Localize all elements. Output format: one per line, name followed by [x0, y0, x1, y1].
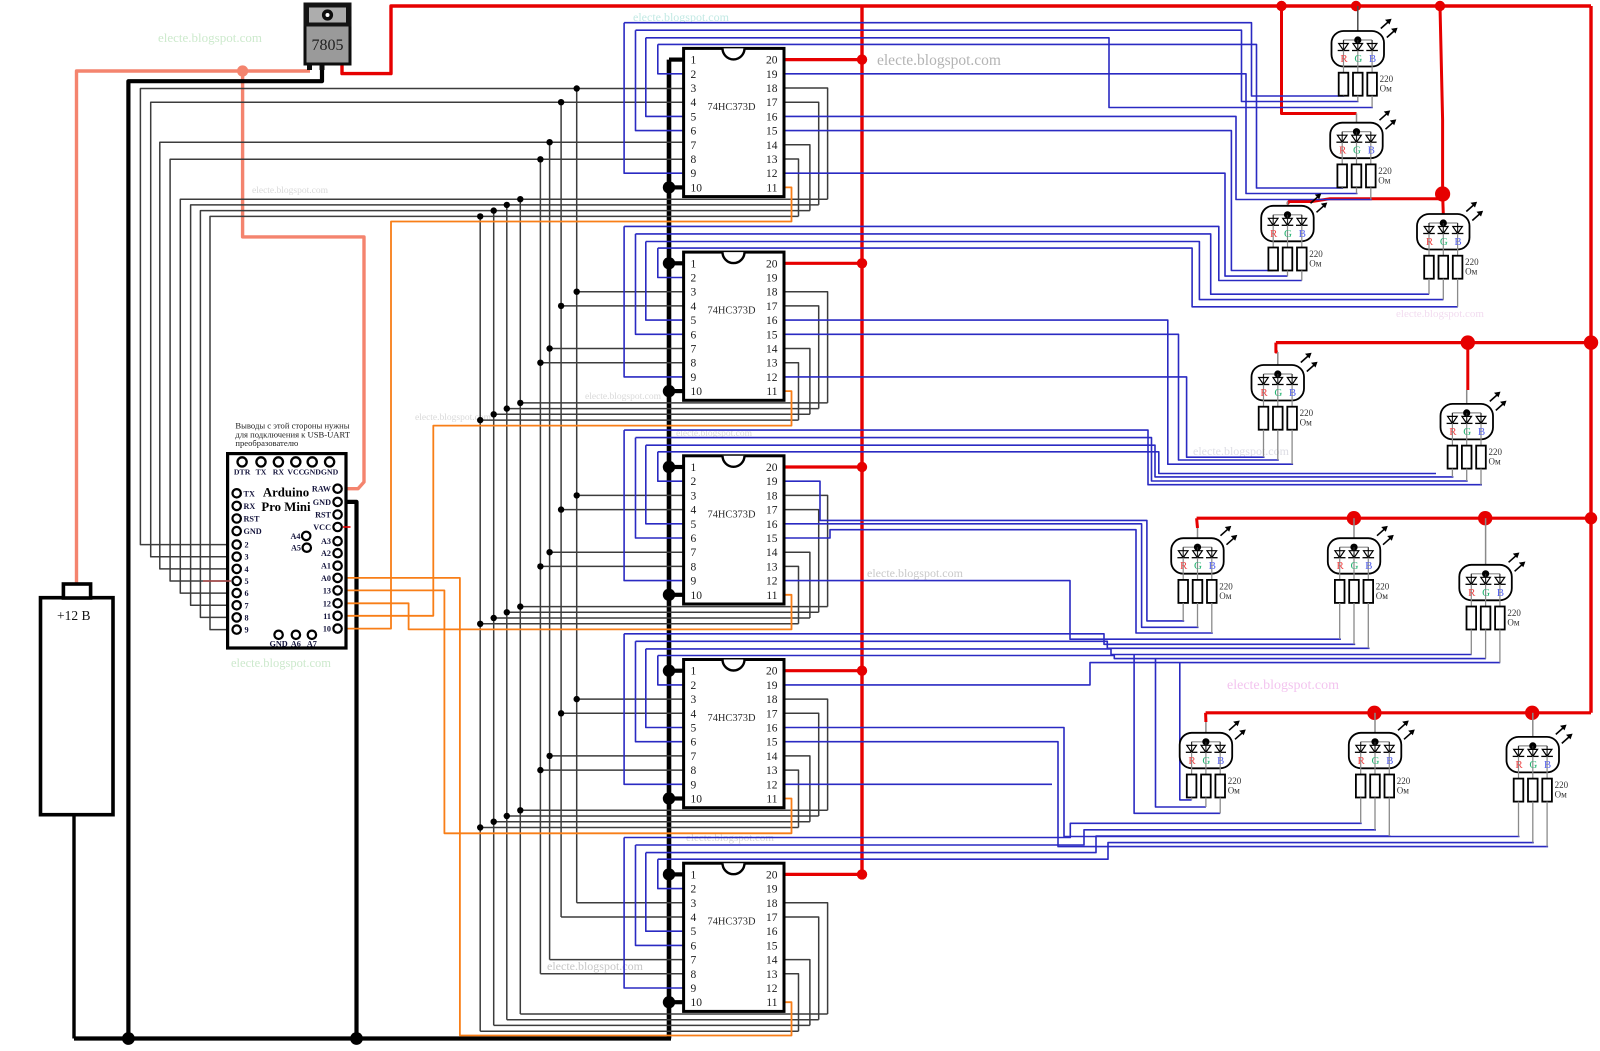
resistors 220 Ом for LED5 [1259, 407, 1314, 465]
wire data vertical bus column x493 [493, 211, 495, 1026]
svg-text:19: 19 [766, 476, 778, 488]
svg-text:4: 4 [691, 505, 697, 517]
node data junction U4 pin 4 [558, 506, 564, 512]
svg-text:4: 4 [691, 97, 697, 109]
wire data wrap U3 pin 14 [784, 349, 810, 415]
svg-text:1: 1 [691, 55, 697, 67]
LED7 emission arrows [1221, 526, 1238, 545]
wire +5V stub to LED5 [1276, 343, 1278, 352]
LED8 emission arrows [1377, 526, 1394, 545]
svg-text:GND: GND [321, 468, 339, 477]
LED10 emission arrows [1229, 721, 1246, 740]
wire latch U6 pin1 OE stub [669, 872, 684, 876]
svg-text:220: 220 [1489, 447, 1503, 457]
svg-text:Ом: Ом [1489, 457, 1501, 467]
wire latch U4 pin1 OE stub [669, 465, 684, 469]
wire +5V drop to LED2 [1282, 6, 1357, 114]
svg-text:RST: RST [244, 515, 260, 524]
svg-text:18: 18 [766, 490, 778, 502]
wire data rail below U4 lane 3 [494, 617, 810, 619]
wire latch U3 pin1 OE stub [669, 261, 684, 265]
svg-text:15: 15 [766, 940, 778, 952]
node data junction U3 pin 3 [574, 289, 580, 295]
svg-text:18: 18 [766, 287, 778, 299]
wire latch U3 pin10 GND stub [669, 389, 684, 393]
node bus junction U6 pin1 [663, 868, 675, 880]
wire data D2 from Arduino pin 2 [140, 89, 683, 545]
svg-text:12: 12 [323, 599, 331, 608]
wire +5V drop to LED3 LED4 [1440, 6, 1443, 194]
wire output U2 Q group to LED1 blue [646, 38, 1373, 108]
wire LED10 blue elbow to rail [1134, 655, 1220, 814]
wire data wrap U6 pin 13 [784, 974, 799, 1031]
svg-text:TX: TX [244, 489, 255, 498]
svg-text:10: 10 [691, 997, 703, 1009]
svg-text:Arduino: Arduino [263, 486, 309, 500]
node +5V row3 junction LED9 [1478, 511, 1492, 525]
svg-text:Ом: Ом [1309, 259, 1321, 269]
wire data stub to U4 pin 7 [550, 551, 684, 553]
wire orange latch enable LE1 U2 [344, 187, 792, 628]
svg-text:6: 6 [691, 940, 697, 952]
wire output U6 pin 9 riser [624, 838, 684, 989]
node +5V row4 junction LED12 [1525, 706, 1539, 720]
wire output U5 pin 6 riser [636, 641, 684, 741]
svg-text:7: 7 [691, 140, 697, 152]
node data junction U5 pin 7 [546, 753, 552, 759]
wire output U2 pin 5 riser [646, 38, 684, 117]
wire latch U5 pin1 OE stub [669, 669, 684, 673]
node data tee at top column x549 [546, 139, 552, 145]
svg-text:3: 3 [691, 83, 697, 95]
node LED6 common anode [1463, 409, 1470, 416]
svg-text:11: 11 [766, 386, 777, 398]
svg-text:B: B [1299, 228, 1306, 240]
wire data wrap U5 pin 13 [784, 770, 799, 827]
wire output U5 pin 2 riser [658, 656, 684, 685]
svg-text:R: R [1449, 426, 1457, 438]
RGB LED LED6 [1441, 390, 1494, 446]
LED6 emission arrows [1490, 392, 1507, 411]
wire data rail below U6 lane 4 [480, 1030, 798, 1032]
svg-text:19: 19 [766, 680, 778, 692]
RGB LED LED1 [1332, 6, 1385, 73]
svg-text:8: 8 [691, 969, 697, 981]
wire latch U3 pin20 VCC stub [784, 262, 862, 265]
wire +5V rail row4 [1206, 711, 1591, 714]
node data rail junction U5 lane 4 [477, 824, 483, 830]
wire output U4 pin16 to LED7 green [784, 524, 1199, 628]
wire output U3 pin12 to LED5 red [784, 377, 1265, 457]
wire output U2 pin 9 riser [624, 23, 684, 174]
resistors 220 Ом for LED6 [1448, 446, 1503, 485]
node LED9 common anode [1482, 570, 1489, 577]
svg-text:15: 15 [766, 737, 778, 749]
svg-text:G: G [1274, 387, 1282, 399]
RGB LED LED12 [1507, 713, 1560, 779]
svg-text:Ом: Ом [1507, 618, 1519, 628]
node data rail junction U4 lane 3 [491, 615, 497, 621]
svg-text:9: 9 [245, 626, 249, 635]
wire latch U2 pin1 OE stub [669, 57, 684, 61]
svg-text:2: 2 [245, 541, 249, 550]
RGB LED LED7 [1171, 528, 1224, 580]
svg-text:VCC: VCC [287, 468, 304, 477]
wire output U4 pin19 to LED7 red [784, 481, 1184, 621]
svg-text:electe.blogspot.com: electe.blogspot.com [231, 656, 331, 670]
wire data vertical bus column x576 [576, 89, 578, 903]
svg-text:R: R [1337, 560, 1345, 572]
wire output U2 pin 2 riser [658, 44, 684, 73]
node data rail junction U5 lane 3 [491, 819, 497, 825]
node +5V row2 junction LED6 [1461, 335, 1475, 349]
svg-text:4: 4 [691, 912, 697, 924]
node +5V top rail junction LED2 [1276, 1, 1286, 11]
wire output U3 pin 9 riser [624, 226, 684, 377]
svg-text:Ом: Ом [1465, 267, 1477, 277]
svg-text:R: R [1426, 236, 1434, 248]
svg-text:electe.blogspot.com: electe.blogspot.com [158, 30, 262, 45]
resistors 220 Ом for LED1 [1339, 73, 1394, 108]
svg-text:Ом: Ом [1378, 175, 1390, 185]
wire output U2 Q group to LED1 green [636, 30, 1359, 101]
wire output U3 pin 5 riser [646, 242, 684, 321]
LED9 emission arrows [1509, 553, 1526, 572]
RGB LED LED9 [1459, 518, 1512, 606]
wire data vertical bus column x561 [560, 102, 562, 917]
wire orange latch enable LE5 U6 [344, 578, 792, 1036]
wire output U3 pin15 to LED5 green [784, 334, 1279, 460]
svg-text:Ом: Ом [1300, 418, 1312, 428]
wire data vertical bus column x520 [519, 199, 521, 1014]
svg-text:A5: A5 [291, 544, 301, 553]
wire data rail below U4 lane 2 [507, 611, 819, 613]
wire output U6 pin 2 riser [658, 859, 684, 888]
wire output U5 pin 9 riser [624, 634, 684, 785]
LED2 emission arrows [1380, 110, 1397, 129]
wire data D9 from Arduino pin 9 [210, 216, 799, 629]
wire output U4 pin15 to LED7 blue [784, 530, 1213, 633]
svg-text:R: R [1188, 755, 1196, 767]
wire data D6 from Arduino pin 6 [180, 199, 827, 593]
wire output U3 pin16 to LED5 blue [784, 320, 1293, 464]
svg-text:R: R [1468, 587, 1476, 599]
LED4 emission arrows [1466, 202, 1483, 221]
voltage regulator VR1 7805 [304, 3, 352, 71]
svg-text:220: 220 [1465, 257, 1479, 267]
node data junction U5 pin 8 [537, 767, 543, 773]
svg-text:14: 14 [766, 140, 778, 152]
wire orange latch enable LE3 U4 [344, 595, 792, 630]
wire data D7 from Arduino pin 7 [191, 205, 819, 605]
svg-text:74HC373D: 74HC373D [708, 713, 756, 724]
Arduino Pro Mini U1 [228, 454, 346, 649]
svg-text:G: G [1353, 145, 1361, 157]
wire data vertical bus column x549 [549, 142, 551, 959]
wire output U2 pin12 to LED3 green [784, 173, 1288, 276]
svg-text:5: 5 [691, 723, 697, 735]
wire orange latch enable LE4 U5 [344, 590, 792, 833]
svg-text:R: R [1270, 228, 1278, 240]
node salmon junction to RAW feed [237, 65, 248, 76]
svg-text:B: B [1454, 236, 1461, 248]
wire +5V stub to LED7 [1195, 518, 1199, 528]
svg-text:1: 1 [691, 869, 697, 881]
node data junction U3 pin 8 [537, 360, 543, 366]
wire LED10 red elbow to rail [1180, 663, 1192, 800]
svg-text:13: 13 [766, 154, 778, 166]
wire output U5 pin15 to LED12 blue [784, 742, 1548, 847]
svg-text:G: G [1440, 236, 1448, 248]
svg-text:7: 7 [691, 955, 697, 967]
svg-text:220: 220 [1397, 776, 1411, 786]
wire data rail below U6 lane 3 [494, 1024, 810, 1026]
svg-text:RX: RX [273, 468, 285, 477]
node data junction U5 pin 3 [574, 696, 580, 702]
wire data stub to U3 pin 4 [561, 305, 684, 307]
resistors 220 Ом for LED9 [1467, 607, 1522, 663]
svg-text:20: 20 [766, 55, 778, 67]
svg-text:Ом: Ом [1219, 591, 1231, 601]
resistors 220 Ом for LED10 [1187, 775, 1242, 814]
svg-text:R: R [1358, 755, 1366, 767]
wire data wrap U5 pin 18 [784, 699, 828, 810]
wire output U4 pin 6 riser [636, 438, 684, 538]
svg-text:electe.blogspot.com: electe.blogspot.com [1193, 444, 1290, 458]
wire data stub to U3 pin 8 [540, 362, 683, 364]
wire +5V rail row2 [1276, 341, 1591, 344]
svg-text:19: 19 [766, 69, 778, 81]
svg-text:5: 5 [691, 111, 697, 123]
svg-text:A3: A3 [321, 537, 331, 546]
latch U6 74HC373D [684, 863, 784, 1011]
svg-text:R: R [1515, 759, 1523, 771]
resistors 220 Ом for LED11 [1356, 775, 1411, 837]
node data junction U3 pin 7 [546, 345, 552, 351]
wire +5V to LED3 [1288, 199, 1443, 204]
svg-text:16: 16 [766, 315, 778, 327]
LED5 emission arrows [1301, 353, 1318, 372]
svg-text:9: 9 [691, 576, 697, 588]
svg-text:5: 5 [245, 577, 249, 586]
svg-text:B: B [1497, 587, 1504, 599]
node data rail junction U5 lane 1 [517, 807, 523, 813]
node +5V bus junction U6 pin20 [857, 869, 867, 879]
svg-text:9: 9 [691, 168, 697, 180]
svg-text:8: 8 [691, 358, 697, 370]
node LED2 common anode [1353, 128, 1360, 135]
svg-text:DTR: DTR [234, 468, 251, 477]
wire latch U4 pin10 GND stub [669, 593, 684, 597]
svg-text:G: G [1482, 587, 1490, 599]
svg-text:74HC373D: 74HC373D [708, 102, 756, 113]
svg-text:A0: A0 [321, 574, 331, 583]
svg-text:electe.blogspot.com: electe.blogspot.com [877, 52, 1001, 69]
node data rail junction U3 lane 4 [477, 417, 483, 423]
node data rail junction U3 lane 2 [504, 405, 510, 411]
svg-text:5: 5 [691, 519, 697, 531]
wire data stub to U4 pin 3 [577, 494, 684, 496]
wire data rail below U5 lane 2 [507, 815, 819, 817]
svg-text:6: 6 [691, 126, 697, 138]
wire data stub to U5 pin 3 [577, 698, 684, 700]
wire latch ground bus vertical [667, 60, 672, 1039]
svg-text:B: B [1478, 426, 1485, 438]
wire data rail below U3 lane 2 [507, 408, 819, 410]
svg-text:A2: A2 [321, 549, 331, 558]
wire output U5 Q to LED8 blue [636, 641, 1370, 648]
wire data stub to U3 pin 7 [550, 348, 684, 350]
svg-text:electe.blogspot.com: electe.blogspot.com [633, 10, 730, 24]
node LED5 common anode [1274, 370, 1281, 377]
node LED3 common anode [1284, 211, 1291, 218]
svg-text:11: 11 [766, 794, 777, 806]
svg-text:17: 17 [766, 912, 778, 924]
latch U3 74HC373D [684, 252, 784, 400]
svg-text:6: 6 [691, 737, 697, 749]
wire +5V rail row3 [1197, 517, 1591, 520]
svg-text:VCC: VCC [313, 523, 331, 532]
svg-text:16: 16 [766, 723, 778, 735]
node data tee column x506 [504, 202, 510, 208]
node +5V bus junction U3 pin20 [857, 258, 867, 268]
wire output U4 Q spare rail [658, 452, 1436, 474]
svg-text:7: 7 [691, 344, 697, 356]
LED12 emission arrows [1556, 725, 1573, 744]
svg-text:2: 2 [691, 884, 697, 896]
node +5V bus junction U2 pin20 [857, 54, 867, 64]
svg-text:electe.blogspot.com: electe.blogspot.com [1227, 678, 1339, 693]
wire Arduino GND to ground bus [344, 502, 357, 1039]
svg-text:A7: A7 [307, 640, 317, 649]
wire data rail below U6 lane 2 [507, 1019, 819, 1021]
svg-text:14: 14 [766, 955, 778, 967]
wire data stub to U6 pin 3 [577, 902, 684, 904]
RGB LED LED11 [1349, 713, 1402, 775]
svg-text:11: 11 [766, 590, 777, 602]
node +5V bus junction U4 pin20 [857, 462, 867, 472]
wire data D8 from Arduino pin 8 [200, 211, 810, 618]
svg-text:6: 6 [691, 329, 697, 341]
svg-text:Ом: Ом [1397, 786, 1409, 796]
svg-text:R: R [1339, 145, 1347, 157]
wire data stub to U4 pin 8 [540, 565, 683, 567]
svg-text:220: 220 [1376, 581, 1390, 591]
svg-text:5: 5 [691, 315, 697, 327]
node +5V top rail junction LED1 [1351, 1, 1361, 11]
RGB LED LED4 [1417, 214, 1470, 256]
svg-text:17: 17 [766, 708, 778, 720]
svg-text:74HC373D: 74HC373D [708, 509, 756, 520]
RGB LED LED10 [1180, 722, 1233, 775]
svg-text:74HC373D: 74HC373D [708, 917, 756, 928]
svg-text:RAW: RAW [312, 485, 332, 494]
svg-text:GND: GND [313, 498, 331, 507]
wire ground thick from 7805 GND down left side [128, 64, 322, 1039]
resistors 220 Ом for LED12 [1514, 779, 1569, 847]
svg-text:20: 20 [766, 462, 778, 474]
svg-text:18: 18 [766, 83, 778, 95]
wire data D5 from Arduino pin 5 [170, 159, 684, 581]
svg-text:B: B [1217, 755, 1224, 767]
svg-text:220: 220 [1300, 408, 1314, 418]
node data tee at top column x540 [537, 156, 543, 162]
svg-text:A4: A4 [290, 532, 300, 541]
svg-text:20: 20 [766, 666, 778, 678]
svg-text:16: 16 [766, 519, 778, 531]
wire output U4 pin 9 riser [624, 430, 684, 580]
wire data stub to U6 pin 4 [561, 916, 684, 918]
latch U2 74HC373D [684, 48, 784, 196]
wire +5V stub to LED10 [1204, 713, 1207, 722]
svg-text:B: B [1368, 145, 1375, 157]
node LED11 common anode [1371, 738, 1378, 745]
node LED7 common anode [1194, 544, 1201, 551]
svg-text:4: 4 [245, 565, 249, 574]
svg-text:B: B [1289, 387, 1296, 399]
wire output U2 Q group to LED1 red [624, 23, 1344, 96]
wire output U3 Q to LED4 red [636, 234, 1430, 294]
svg-text:12: 12 [766, 168, 778, 180]
wire data stub to U4 pin 4 [561, 509, 684, 511]
svg-text:14: 14 [766, 751, 778, 763]
node bus junction U5 pin10 [663, 792, 675, 804]
svg-text:12: 12 [766, 576, 778, 588]
svg-text:14: 14 [766, 344, 778, 356]
wire latch U4 pin20 VCC stub [784, 465, 862, 468]
wire data wrap U4 pin 17 [784, 510, 819, 613]
svg-text:electe.blogspot.com: electe.blogspot.com [547, 959, 644, 973]
svg-text:3: 3 [691, 287, 697, 299]
svg-text:+12 В: +12 В [57, 608, 91, 623]
svg-text:11: 11 [766, 997, 777, 1009]
resistors 220 Ом for LED2 [1337, 164, 1392, 199]
svg-text:B: B [1544, 759, 1551, 771]
svg-text:17: 17 [766, 505, 778, 517]
svg-text:2: 2 [691, 476, 697, 488]
svg-text:8: 8 [245, 613, 249, 622]
svg-text:Ом: Ом [1555, 790, 1567, 800]
svg-text:3: 3 [691, 898, 697, 910]
svg-text:15: 15 [766, 533, 778, 545]
node data tee column x520 [517, 196, 523, 202]
wire output U6 pin 6 riser [636, 845, 684, 945]
node data tee column x480 [477, 213, 483, 219]
node LED4 common anode [1440, 219, 1447, 226]
RGB LED LED5 [1252, 352, 1305, 407]
wire output U5 Q to LED9 red [646, 649, 1472, 655]
resistors 220 Ом for LED4 [1424, 256, 1479, 307]
wire output U4 pin 5 riser [646, 445, 684, 524]
node LED1 common anode [1354, 36, 1361, 43]
svg-text:4: 4 [691, 708, 697, 720]
wire +5V to LED4 [1441, 194, 1445, 214]
wire data vertical bus column x506 [506, 205, 508, 1020]
wire data rail below U3 lane 4 [480, 419, 798, 421]
node +5V row3 right edge junction [1585, 512, 1597, 524]
svg-text:9: 9 [691, 779, 697, 791]
wire data D4 from Arduino pin 4 [160, 142, 684, 569]
wire data vertical bus column x540 [539, 159, 541, 974]
wire data rail below U6 lane 1 [520, 1013, 827, 1015]
svg-text:220: 220 [1219, 581, 1233, 591]
svg-text:Ом: Ом [1376, 591, 1388, 601]
wire output U6 Q to LED11 blue [646, 836, 1391, 853]
svg-text:10: 10 [691, 182, 703, 194]
svg-text:18: 18 [766, 694, 778, 706]
svg-text:R: R [1340, 53, 1348, 65]
latch U4 74HC373D [684, 456, 784, 604]
